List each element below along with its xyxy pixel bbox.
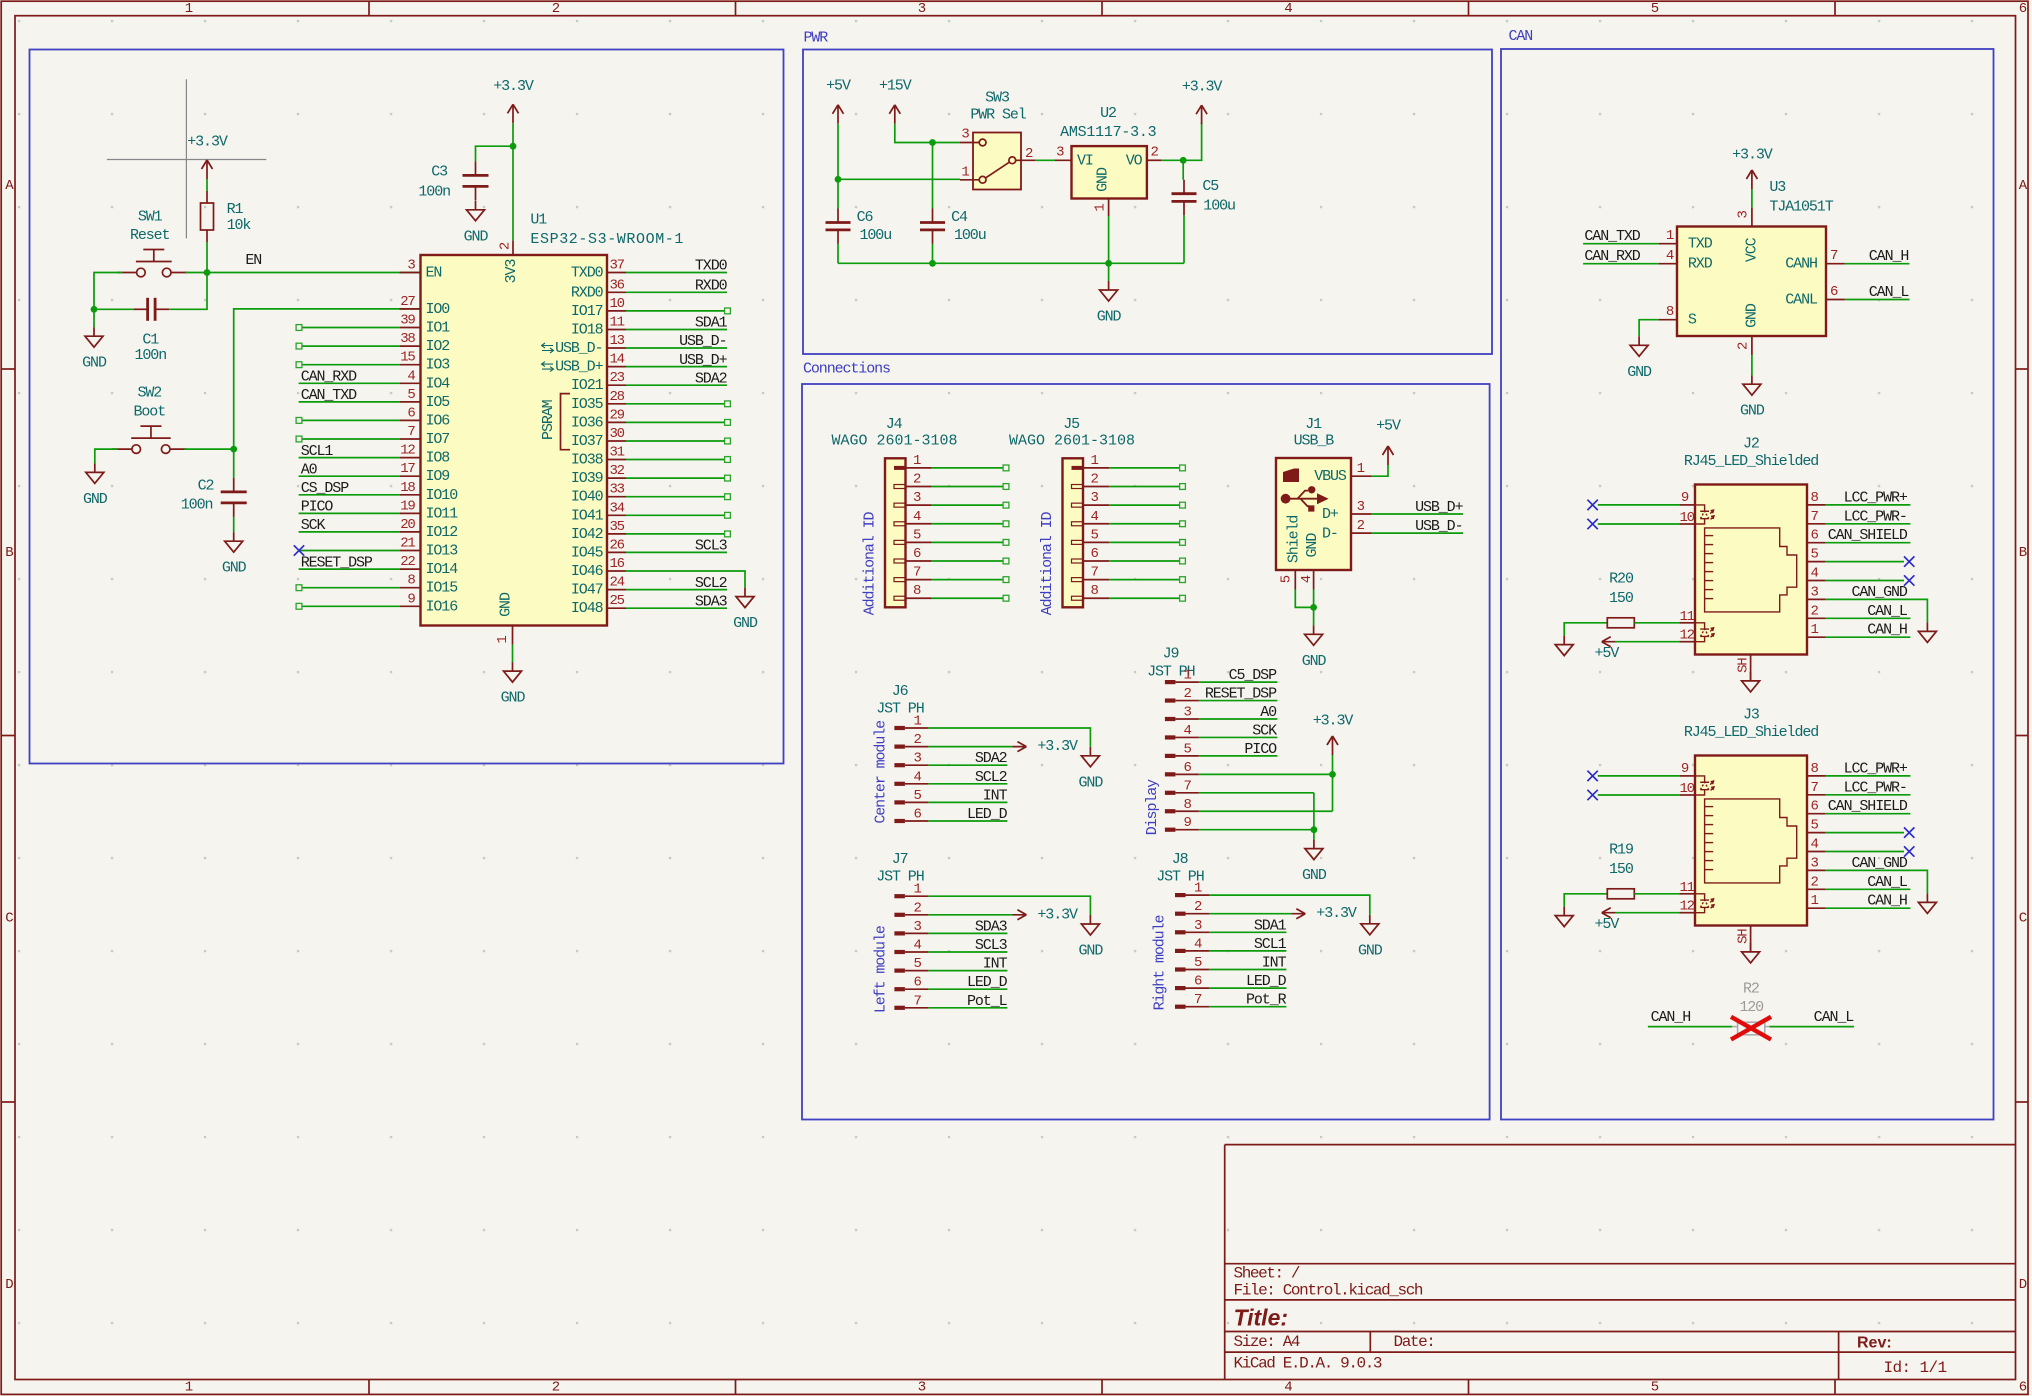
wire J3 pin10 (n/c) <box>1598 794 1679 796</box>
ground GND (R20) <box>1555 636 1573 656</box>
svg-text:CAN_SHIELD: CAN_SHIELD <box>1828 798 1908 815</box>
svg-text:4: 4 <box>914 769 922 785</box>
svg-text:5: 5 <box>913 527 921 543</box>
svg-text:SDA1: SDA1 <box>695 315 728 332</box>
net label CAN_L <box>1867 874 1908 891</box>
svg-text:INT: INT <box>983 956 1008 973</box>
wire J9 pin 5 <box>1199 755 1278 757</box>
net label Pot_R <box>1246 992 1287 1009</box>
wire C2 to GND <box>233 517 235 532</box>
svg-text:SCL2: SCL2 <box>695 575 727 592</box>
wire A0 to IO9 <box>299 475 400 477</box>
svg-text:CANH: CANH <box>1785 256 1817 273</box>
wire U2 GND to rail <box>1108 216 1110 263</box>
wire Shield to GND <box>1295 590 1313 608</box>
net label CAN_L (R2) <box>1814 1009 1855 1026</box>
pin 27 IO0 (U1 left) <box>400 294 451 318</box>
svg-text:Display: Display <box>1144 779 1161 835</box>
connector J3 RJ45_LED_Shielded <box>1679 706 1826 952</box>
wire J7 pin 3 <box>928 932 1007 934</box>
svg-text:12: 12 <box>1679 628 1694 644</box>
wire IO46 to GND <box>626 571 745 588</box>
wire J9 pin7/pin9 to GND <box>1199 793 1314 840</box>
svg-text:IO37: IO37 <box>571 433 603 450</box>
svg-text:120: 120 <box>1739 999 1764 1016</box>
net label SCK <box>1252 722 1277 739</box>
pin 13 USB_D- (U1 right) <box>542 333 627 357</box>
svg-text:USB_D+: USB_D+ <box>679 352 728 369</box>
no-connect X J2 pin4 <box>1904 575 1914 585</box>
wire USB_D+ <box>1372 513 1463 515</box>
svg-text:6: 6 <box>1830 284 1838 300</box>
pin 35 IO42 (U1 right) <box>571 519 626 543</box>
svg-text:5: 5 <box>1651 1379 1659 1395</box>
svg-text:3: 3 <box>913 490 921 506</box>
wire (unconnected) IO38 <box>626 457 730 463</box>
switch SW2 Boot <box>112 384 187 453</box>
svg-text:9: 9 <box>407 591 415 607</box>
svg-text:LCC_PWR+: LCC_PWR+ <box>1844 489 1908 506</box>
junction 3V3/C3 <box>510 143 517 150</box>
svg-text:2: 2 <box>1811 874 1819 890</box>
net label USB_D+ <box>679 352 728 369</box>
net label LED_D <box>967 974 1008 991</box>
wire (unconnected) J5 pin 8 <box>1109 595 1185 601</box>
svg-text:RESET_DSP: RESET_DSP <box>1205 686 1277 703</box>
svg-text:2: 2 <box>552 1 560 17</box>
svg-text:GND: GND <box>498 592 515 617</box>
svg-text:3V3: 3V3 <box>503 259 520 284</box>
wire ground rail (PWR) <box>838 262 1184 264</box>
svg-text:GND: GND <box>464 228 489 245</box>
svg-text:Sheet: /: Sheet: / <box>1234 1265 1300 1283</box>
svg-text:5: 5 <box>914 788 922 804</box>
net label SCL1 <box>1254 936 1287 953</box>
svg-text:6: 6 <box>407 405 415 421</box>
ground GND (J2 pin3) <box>1918 622 1936 642</box>
junction VO/C5 <box>1180 157 1187 164</box>
wire J9 pin 2 <box>1199 700 1278 702</box>
svg-text:CAN_SHIELD: CAN_SHIELD <box>1828 527 1908 544</box>
svg-text:1: 1 <box>1194 881 1202 897</box>
net label SDA1 <box>695 315 728 332</box>
svg-text:3: 3 <box>1357 499 1365 515</box>
wire J6 pin 4 <box>928 783 1007 785</box>
wire GND to R19 <box>1564 894 1607 907</box>
svg-text:IO45: IO45 <box>571 544 604 561</box>
svg-text:11: 11 <box>610 315 625 331</box>
wire junction to IO0 <box>234 309 421 449</box>
junction Shield/GND <box>1310 604 1317 611</box>
svg-text:USB_D-: USB_D- <box>555 340 602 357</box>
capacitor C3 <box>418 161 488 200</box>
svg-text:TXD: TXD <box>1688 236 1713 253</box>
wire CS_DSP to IO10 <box>299 494 400 496</box>
svg-text:IO42: IO42 <box>571 526 603 543</box>
svg-text:3: 3 <box>1184 705 1192 721</box>
svg-text:Date:: Date: <box>1394 1333 1435 1351</box>
svg-text:7: 7 <box>1194 992 1202 1008</box>
wire J8 pin1 to GND <box>1209 895 1370 915</box>
wire J8 pin2 to +3.3V <box>1209 913 1291 915</box>
svg-text:IO48: IO48 <box>571 600 604 617</box>
svg-text:KiCad E.D.A. 9.0.3: KiCad E.D.A. 9.0.3 <box>1234 1355 1382 1373</box>
svg-text:CAN_H: CAN_H <box>1867 622 1907 639</box>
svg-text:RJ45_LED_Shielded: RJ45_LED_Shielded <box>1684 453 1818 470</box>
svg-text:26: 26 <box>610 537 625 553</box>
svg-text:5: 5 <box>1184 741 1192 757</box>
svg-text:3: 3 <box>1735 211 1751 219</box>
svg-text:IO39: IO39 <box>571 470 603 487</box>
pin 11 IO18 (U1 right) <box>571 315 626 339</box>
svg-text:1: 1 <box>1091 453 1099 469</box>
svg-text:7: 7 <box>1184 778 1192 794</box>
svg-text:4: 4 <box>1091 509 1099 525</box>
pin 4 IO4 (U1 left) <box>400 368 451 392</box>
pin 18 IO10 (U1 left) <box>400 480 459 504</box>
svg-text:IO8: IO8 <box>426 450 451 467</box>
power +5V (PWR) <box>826 77 851 124</box>
svg-text:Size: A4: Size: A4 <box>1234 1333 1300 1351</box>
net label INT <box>983 956 1008 973</box>
svg-text:SDA3: SDA3 <box>975 918 1008 935</box>
pin 20 IO12 (U1 left) <box>400 517 458 541</box>
svg-text:2: 2 <box>1811 603 1819 619</box>
svg-text:VBUS: VBUS <box>1314 468 1347 485</box>
svg-text:IO3: IO3 <box>426 357 451 374</box>
svg-text:GND: GND <box>1743 303 1760 328</box>
wire J9 pin 4 <box>1199 736 1278 738</box>
svg-text:Center module: Center module <box>872 720 889 824</box>
svg-text:100n: 100n <box>134 347 166 364</box>
svg-text:GND: GND <box>1302 653 1327 670</box>
svg-text:11: 11 <box>1679 880 1694 896</box>
svg-text:CAN_GND: CAN_GND <box>1851 855 1907 872</box>
svg-text:2: 2 <box>1091 472 1099 488</box>
svg-text:USB_B: USB_B <box>1294 433 1335 450</box>
svg-text:2: 2 <box>914 732 922 748</box>
svg-text:7: 7 <box>407 424 415 440</box>
no-connect X J2 pin5 <box>1904 556 1914 566</box>
net label SCL1 <box>301 443 334 460</box>
svg-text:39: 39 <box>400 313 415 329</box>
net label LCC_PWR+ <box>1844 489 1908 506</box>
wire J3 pin8 LCC_PWR+ <box>1826 775 1911 777</box>
svg-text:8: 8 <box>1666 304 1674 320</box>
svg-text:29: 29 <box>610 407 625 423</box>
svg-text:PWR: PWR <box>804 29 829 46</box>
svg-text:5: 5 <box>1091 527 1099 543</box>
svg-text:R20: R20 <box>1609 571 1634 588</box>
svg-text:CAN_GND: CAN_GND <box>1851 584 1907 601</box>
net label LCC_PWR+ <box>1844 760 1908 777</box>
wire VBUS to +5V <box>1372 465 1388 476</box>
svg-text:5: 5 <box>1811 547 1819 563</box>
wire CAN_H (U3) <box>1845 263 1910 265</box>
junction +15V/C4 <box>929 139 936 146</box>
svg-text:VI: VI <box>1077 153 1093 170</box>
wire C5 bottom to rail <box>1183 215 1185 263</box>
no-connect X J2 pin10 <box>1587 519 1597 529</box>
wire USB_D- <box>1372 532 1463 534</box>
svg-text:1: 1 <box>1093 204 1109 212</box>
connector J5 WAGO 2601-3108 <box>1009 416 1135 615</box>
power +3.3V (J8) <box>1291 905 1357 922</box>
wire J7 pin1 to GND <box>928 896 1090 915</box>
section box ESP32 <box>30 50 784 764</box>
net label CAN_RXD <box>301 369 357 386</box>
wire J3 pin12 to +5V <box>1616 912 1680 914</box>
ground GND (U3) <box>1740 375 1765 420</box>
svg-text:IO10: IO10 <box>426 487 459 504</box>
svg-text:AMS1117-3.3: AMS1117-3.3 <box>1060 124 1157 141</box>
net label SDA3 <box>695 593 728 610</box>
wire U1 GND <box>512 645 514 663</box>
ground GND (SW2) <box>83 463 108 508</box>
svg-text:D: D <box>2019 1277 2027 1293</box>
wire J3 pin5 (n/c) <box>1826 832 1904 834</box>
wire SDA3 from IO48 <box>626 607 727 609</box>
no-connect X J3 pin4 <box>1904 846 1914 856</box>
svg-text:150: 150 <box>1609 590 1634 607</box>
svg-text:12: 12 <box>1679 899 1694 915</box>
svg-text:37: 37 <box>610 258 625 274</box>
wire (unconnected) IO35 <box>626 401 730 407</box>
svg-text:GND: GND <box>82 355 107 372</box>
svg-text:4: 4 <box>913 509 921 525</box>
svg-text:CAN_TXD: CAN_TXD <box>301 387 357 404</box>
wire J6 pin 5 <box>928 801 1007 803</box>
wire SDA2 from IO21 <box>626 384 727 386</box>
svg-text:2: 2 <box>498 242 514 250</box>
wire +3.3V to VCC <box>1751 189 1753 208</box>
wire J3 pin9 (n/c) <box>1598 775 1679 777</box>
svg-text:2: 2 <box>1025 146 1033 162</box>
wire GND pin down <box>1313 590 1315 626</box>
svg-text:3: 3 <box>918 1379 926 1395</box>
svg-text:21: 21 <box>400 536 415 552</box>
svg-text:GND: GND <box>733 615 758 632</box>
svg-text:3: 3 <box>1056 144 1064 160</box>
net label CAN_RXD <box>1584 248 1640 265</box>
wire U3 GND <box>1751 355 1753 375</box>
svg-text:15: 15 <box>400 350 415 366</box>
wire SCL3 from IO45 <box>626 551 727 553</box>
pin 14 USB_D+ (U1 right) <box>542 352 627 376</box>
svg-text:D+: D+ <box>1322 506 1339 523</box>
wire J2 pin10 (n/c) <box>1598 523 1679 525</box>
svg-text:File: Control.kicad_sch: File: Control.kicad_sch <box>1234 1282 1423 1300</box>
svg-text:4: 4 <box>1284 1 1292 17</box>
wire J3 pin2 CAN_L <box>1826 888 1911 890</box>
svg-text:IO7: IO7 <box>426 431 450 448</box>
svg-text:A0: A0 <box>301 461 318 478</box>
svg-text:IO41: IO41 <box>571 507 604 524</box>
svg-text:CAN_RXD: CAN_RXD <box>301 369 357 386</box>
svg-text:3: 3 <box>1811 855 1819 871</box>
net label CAN_SHIELD <box>1828 798 1908 815</box>
wire U2 VO to +3.3V <box>1162 122 1202 160</box>
svg-text:IO16: IO16 <box>426 598 459 615</box>
svg-text:B: B <box>2019 545 2027 561</box>
wire R2 to CAN_L <box>1770 1026 1854 1028</box>
no-connect X IO13 <box>294 545 304 555</box>
svg-text:LED_D: LED_D <box>1246 973 1287 990</box>
svg-text:6: 6 <box>1811 799 1819 815</box>
svg-text:RESET_DSP: RESET_DSP <box>301 554 373 571</box>
ground GND (C3) <box>464 201 489 246</box>
svg-text:1: 1 <box>1184 668 1192 684</box>
power +3.3V (U1) <box>493 78 534 124</box>
ground GND (J7) <box>1079 915 1104 960</box>
svg-text:IO17: IO17 <box>571 303 603 320</box>
svg-text:PWR Sel: PWR Sel <box>970 107 1026 124</box>
net label CAN_SHIELD <box>1828 527 1908 544</box>
svg-text:2: 2 <box>1735 342 1751 350</box>
wire SCL1 to IO8 <box>299 457 400 459</box>
pin 28 IO35 (U1 right) <box>571 389 626 413</box>
svg-text:5: 5 <box>1811 818 1819 834</box>
wire junction to C3 <box>476 146 514 161</box>
svg-text:SCL3: SCL3 <box>975 937 1008 954</box>
wire J8 pin 4 <box>1209 950 1286 952</box>
svg-text:VCC: VCC <box>1743 237 1760 262</box>
svg-text:WAGO 2601-3108: WAGO 2601-3108 <box>1009 433 1135 450</box>
svg-text:8: 8 <box>1091 583 1099 599</box>
svg-text:J4: J4 <box>886 416 903 433</box>
svg-text:+3.3V: +3.3V <box>493 78 534 95</box>
net label LED_D <box>1246 973 1287 990</box>
wire (unconnected) J4 pin 4 <box>932 521 1009 527</box>
svg-text:100n: 100n <box>418 184 450 201</box>
svg-text:CAN_H: CAN_H <box>1869 248 1909 265</box>
svg-text:5: 5 <box>1194 955 1202 971</box>
svg-text:6: 6 <box>914 975 922 991</box>
svg-text:+5V: +5V <box>826 77 851 94</box>
wire J2 pin5 (n/c) <box>1826 561 1904 563</box>
svg-text:+3.3V: +3.3V <box>1037 738 1078 755</box>
section box CAN <box>1501 28 1994 1120</box>
svg-text:+15V: +15V <box>879 77 912 94</box>
svg-text:SH: SH <box>1735 658 1751 673</box>
pin 24 IO47 (U1 right) <box>571 575 626 599</box>
svg-text:SCL1: SCL1 <box>301 443 334 460</box>
net label CAN_L <box>1867 603 1908 620</box>
svg-text:U1: U1 <box>530 211 547 228</box>
svg-text:1: 1 <box>185 1 193 17</box>
connector J2 RJ45_LED_Shielded <box>1679 435 1826 681</box>
svg-text:6: 6 <box>1184 760 1192 776</box>
net label CAN_TXD <box>301 387 357 404</box>
svg-text:150: 150 <box>1609 861 1634 878</box>
svg-text:2: 2 <box>914 900 922 916</box>
svg-text:30: 30 <box>610 426 625 442</box>
svg-text:+3.3V: +3.3V <box>1316 905 1357 922</box>
svg-text:IO0: IO0 <box>426 301 451 318</box>
junction +5V/C6 <box>835 176 842 183</box>
power +5V (J3) <box>1595 908 1620 934</box>
wire RESET_DSP to IO14 <box>299 568 400 570</box>
svg-text:10: 10 <box>1679 510 1694 526</box>
svg-text:IO4: IO4 <box>426 375 451 392</box>
wire (unconnected) J4 pin 3 <box>932 502 1009 508</box>
wire PICO to IO11 <box>299 512 400 514</box>
svg-text:C6: C6 <box>857 209 874 226</box>
svg-text:23: 23 <box>610 370 625 386</box>
net label SDA2 <box>695 370 727 387</box>
svg-text:Left module: Left module <box>872 925 889 1013</box>
svg-text:9: 9 <box>1681 761 1689 777</box>
svg-text:Additional ID: Additional ID <box>1039 511 1056 615</box>
wire CAN_TXD <box>1583 243 1659 245</box>
svg-text:13: 13 <box>610 333 625 349</box>
svg-text:LED_D: LED_D <box>967 974 1008 991</box>
svg-text:CAN_L: CAN_L <box>1814 1009 1855 1026</box>
pin 19 IO11 (U1 left) <box>400 498 459 522</box>
svg-text:2: 2 <box>1184 686 1192 702</box>
switch SW1 Reset <box>117 208 188 276</box>
net label TXD0 <box>695 258 728 275</box>
svg-text:R1: R1 <box>227 201 244 218</box>
pin 7 IO7 (U1 left) <box>400 424 450 448</box>
svg-text:Boot: Boot <box>133 404 165 421</box>
svg-text:4: 4 <box>1666 248 1674 264</box>
svg-text:100u: 100u <box>1203 198 1235 215</box>
connector J7 JST PH <box>872 851 928 1013</box>
svg-text:U3: U3 <box>1769 179 1786 196</box>
pin 15 IO3 (U1 left) <box>400 350 451 374</box>
wire SW3 to U2 VI <box>1035 159 1055 161</box>
junction SW2/C2 <box>230 446 237 453</box>
svg-text:Title:: Title: <box>1234 1305 1289 1331</box>
svg-text:7: 7 <box>1811 780 1819 796</box>
svg-text:CAN_H: CAN_H <box>1651 1009 1691 1026</box>
svg-text:1: 1 <box>914 714 922 730</box>
op-amp U1 ESP32-S3-WROOM-1 body <box>421 211 685 625</box>
wire R1 to EN <box>206 242 208 273</box>
connector J6 JST PH <box>872 683 928 824</box>
svg-text:CAN_RXD: CAN_RXD <box>1584 248 1640 265</box>
wire SW1 left to C1 <box>94 273 134 310</box>
wire SDA1 from IO18 <box>626 329 727 331</box>
net label SDA1 <box>1254 917 1287 934</box>
wire GND to R20 <box>1564 623 1607 636</box>
svg-text:+3.3V: +3.3V <box>1182 79 1223 96</box>
svg-text:5: 5 <box>1651 1 1659 17</box>
pin 38 IO2 (U1 left) <box>400 331 450 355</box>
pin 2 3V3 (top) <box>498 241 521 284</box>
svg-text:6: 6 <box>2019 1 2027 17</box>
capacitor C4 <box>920 209 986 245</box>
svg-text:3: 3 <box>914 919 922 935</box>
svg-text:J5: J5 <box>1063 416 1080 433</box>
svg-text:CAN_L: CAN_L <box>1867 874 1908 891</box>
svg-text:1: 1 <box>185 1379 193 1395</box>
ground GND (J8) <box>1358 915 1383 960</box>
svg-text:6: 6 <box>914 807 922 823</box>
svg-text:IO2: IO2 <box>426 338 450 355</box>
svg-text:INT: INT <box>983 787 1008 804</box>
svg-text:SDA2: SDA2 <box>975 750 1007 767</box>
wire J2 pin8 LCC_PWR+ <box>1826 504 1911 506</box>
wire (unconnected) IO16 <box>296 603 400 609</box>
svg-text:C: C <box>5 911 13 927</box>
svg-text:J3: J3 <box>1743 706 1760 723</box>
net label USB_D- <box>679 333 726 350</box>
svg-text:CS_DSP: CS_DSP <box>301 480 350 497</box>
net label RESET_DSP <box>1205 686 1277 703</box>
pin 25 IO48 (U1 right) <box>571 593 626 617</box>
